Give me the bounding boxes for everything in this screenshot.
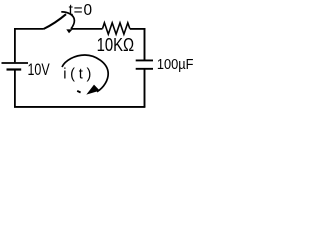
resistor R1 zigzag: [103, 23, 130, 34]
capacitor C1 bottom plate: [136, 68, 153, 70]
wire top-right segment: [130, 28, 146, 30]
switch SW1 blade: [44, 14, 67, 29]
switch arrow head: [66, 29, 72, 33]
svg-text:10V: 10V: [28, 62, 50, 80]
svg-text:i(t): i(t): [63, 67, 95, 83]
current loop arrow head: [86, 85, 100, 95]
wire left vertical upper: [14, 28, 16, 62]
capacitor C1 top plate: [136, 59, 153, 61]
wire right vertical lower: [144, 69, 146, 107]
wire left vertical lower: [14, 70, 16, 108]
wire right vertical upper: [144, 28, 146, 60]
svg-text:100µF: 100µF: [157, 55, 194, 72]
battery V1 long plate: [2, 62, 29, 64]
battery V1 short plate: [7, 68, 22, 70]
wire bottom segment: [14, 106, 145, 108]
current loop arrow tail dash: [77, 91, 80, 93]
current loop arrow i(t): [62, 55, 108, 92]
svg-text:t=0: t=0: [69, 2, 93, 19]
wire top-middle segment: [72, 28, 103, 30]
switch actuation arrow arc: [61, 12, 74, 29]
wire top-left segment: [15, 28, 44, 30]
svg-text:10KΩ: 10KΩ: [97, 35, 134, 56]
